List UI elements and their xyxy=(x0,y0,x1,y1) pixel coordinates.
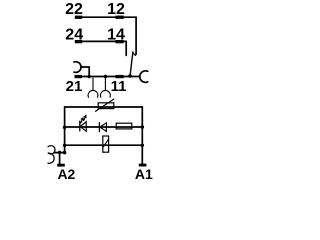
LED cathode bar xyxy=(79,121,81,131)
A2 socket lower arc xyxy=(48,153,54,163)
varistor diagonal xyxy=(96,99,114,111)
node LED branch right xyxy=(141,125,145,129)
wire A2 sockets to bus xyxy=(54,152,64,154)
terminal bar 12 xyxy=(116,16,124,19)
node coil branch left xyxy=(63,144,67,148)
diode triangle xyxy=(100,123,107,132)
svg-text:A2: A2 xyxy=(57,166,75,182)
coil circuit: left bus xyxy=(64,107,66,153)
wire 14 vertical to fixed contact xyxy=(125,41,127,55)
wire 12 to corner xyxy=(124,16,137,18)
wire 21 socket to rail xyxy=(81,67,89,75)
node A2 drop xyxy=(58,151,62,155)
wire 24 to 14 xyxy=(82,40,116,42)
coil branch wire xyxy=(65,144,143,146)
svg-text:A1: A1 xyxy=(135,166,153,182)
right bus xyxy=(141,107,143,164)
terminal bar A1 xyxy=(139,164,147,167)
terminal bar 11 xyxy=(116,75,124,78)
terminal bar 14 xyxy=(116,40,124,43)
wire 14 to corner xyxy=(124,40,127,42)
wire 22 to 12 xyxy=(82,16,116,18)
node A2 bus xyxy=(63,151,67,155)
svg-text:12: 12 xyxy=(107,1,125,18)
relay pin socket 1 (down arc) xyxy=(88,78,98,97)
wire A2 drop xyxy=(59,153,61,164)
svg-text:21: 21 xyxy=(66,78,83,95)
LED emission arrows xyxy=(81,115,86,123)
relay coil diagonal xyxy=(103,139,109,147)
top rail (varistor branch) xyxy=(65,106,143,108)
resistor body xyxy=(116,123,132,129)
svg-text:11: 11 xyxy=(111,78,127,95)
varistor body xyxy=(98,103,114,109)
terminal bar 24 xyxy=(75,40,82,43)
LED branch wire xyxy=(65,126,143,128)
pole socket (arc open right) xyxy=(140,71,148,82)
svg-text:22: 22 xyxy=(65,1,83,18)
movable contact barb xyxy=(133,53,136,56)
rail 11 to pole xyxy=(124,76,131,78)
LED triangle xyxy=(80,122,86,132)
relay coil body xyxy=(103,136,109,152)
terminal bar 22 xyxy=(75,16,82,19)
A2 socket upper arc xyxy=(48,146,55,154)
wire pole to socket xyxy=(130,76,140,78)
node at 21 socket junction xyxy=(87,75,91,79)
movable contact xyxy=(130,52,133,76)
rail 21 to 11 xyxy=(82,76,116,78)
node coil branch right xyxy=(141,144,145,148)
node LED branch left xyxy=(63,126,67,130)
node at relay pin 2 xyxy=(104,75,108,79)
diode cathode bar xyxy=(98,123,100,132)
node pole xyxy=(128,74,132,78)
terminal bar A2 xyxy=(57,164,65,167)
relay pin socket 2 (down arc) xyxy=(101,78,111,97)
socket contact 21 (arc) xyxy=(74,62,81,73)
wire 12 vertical to fixed contact xyxy=(135,17,137,54)
terminal bar 21 xyxy=(75,75,83,78)
